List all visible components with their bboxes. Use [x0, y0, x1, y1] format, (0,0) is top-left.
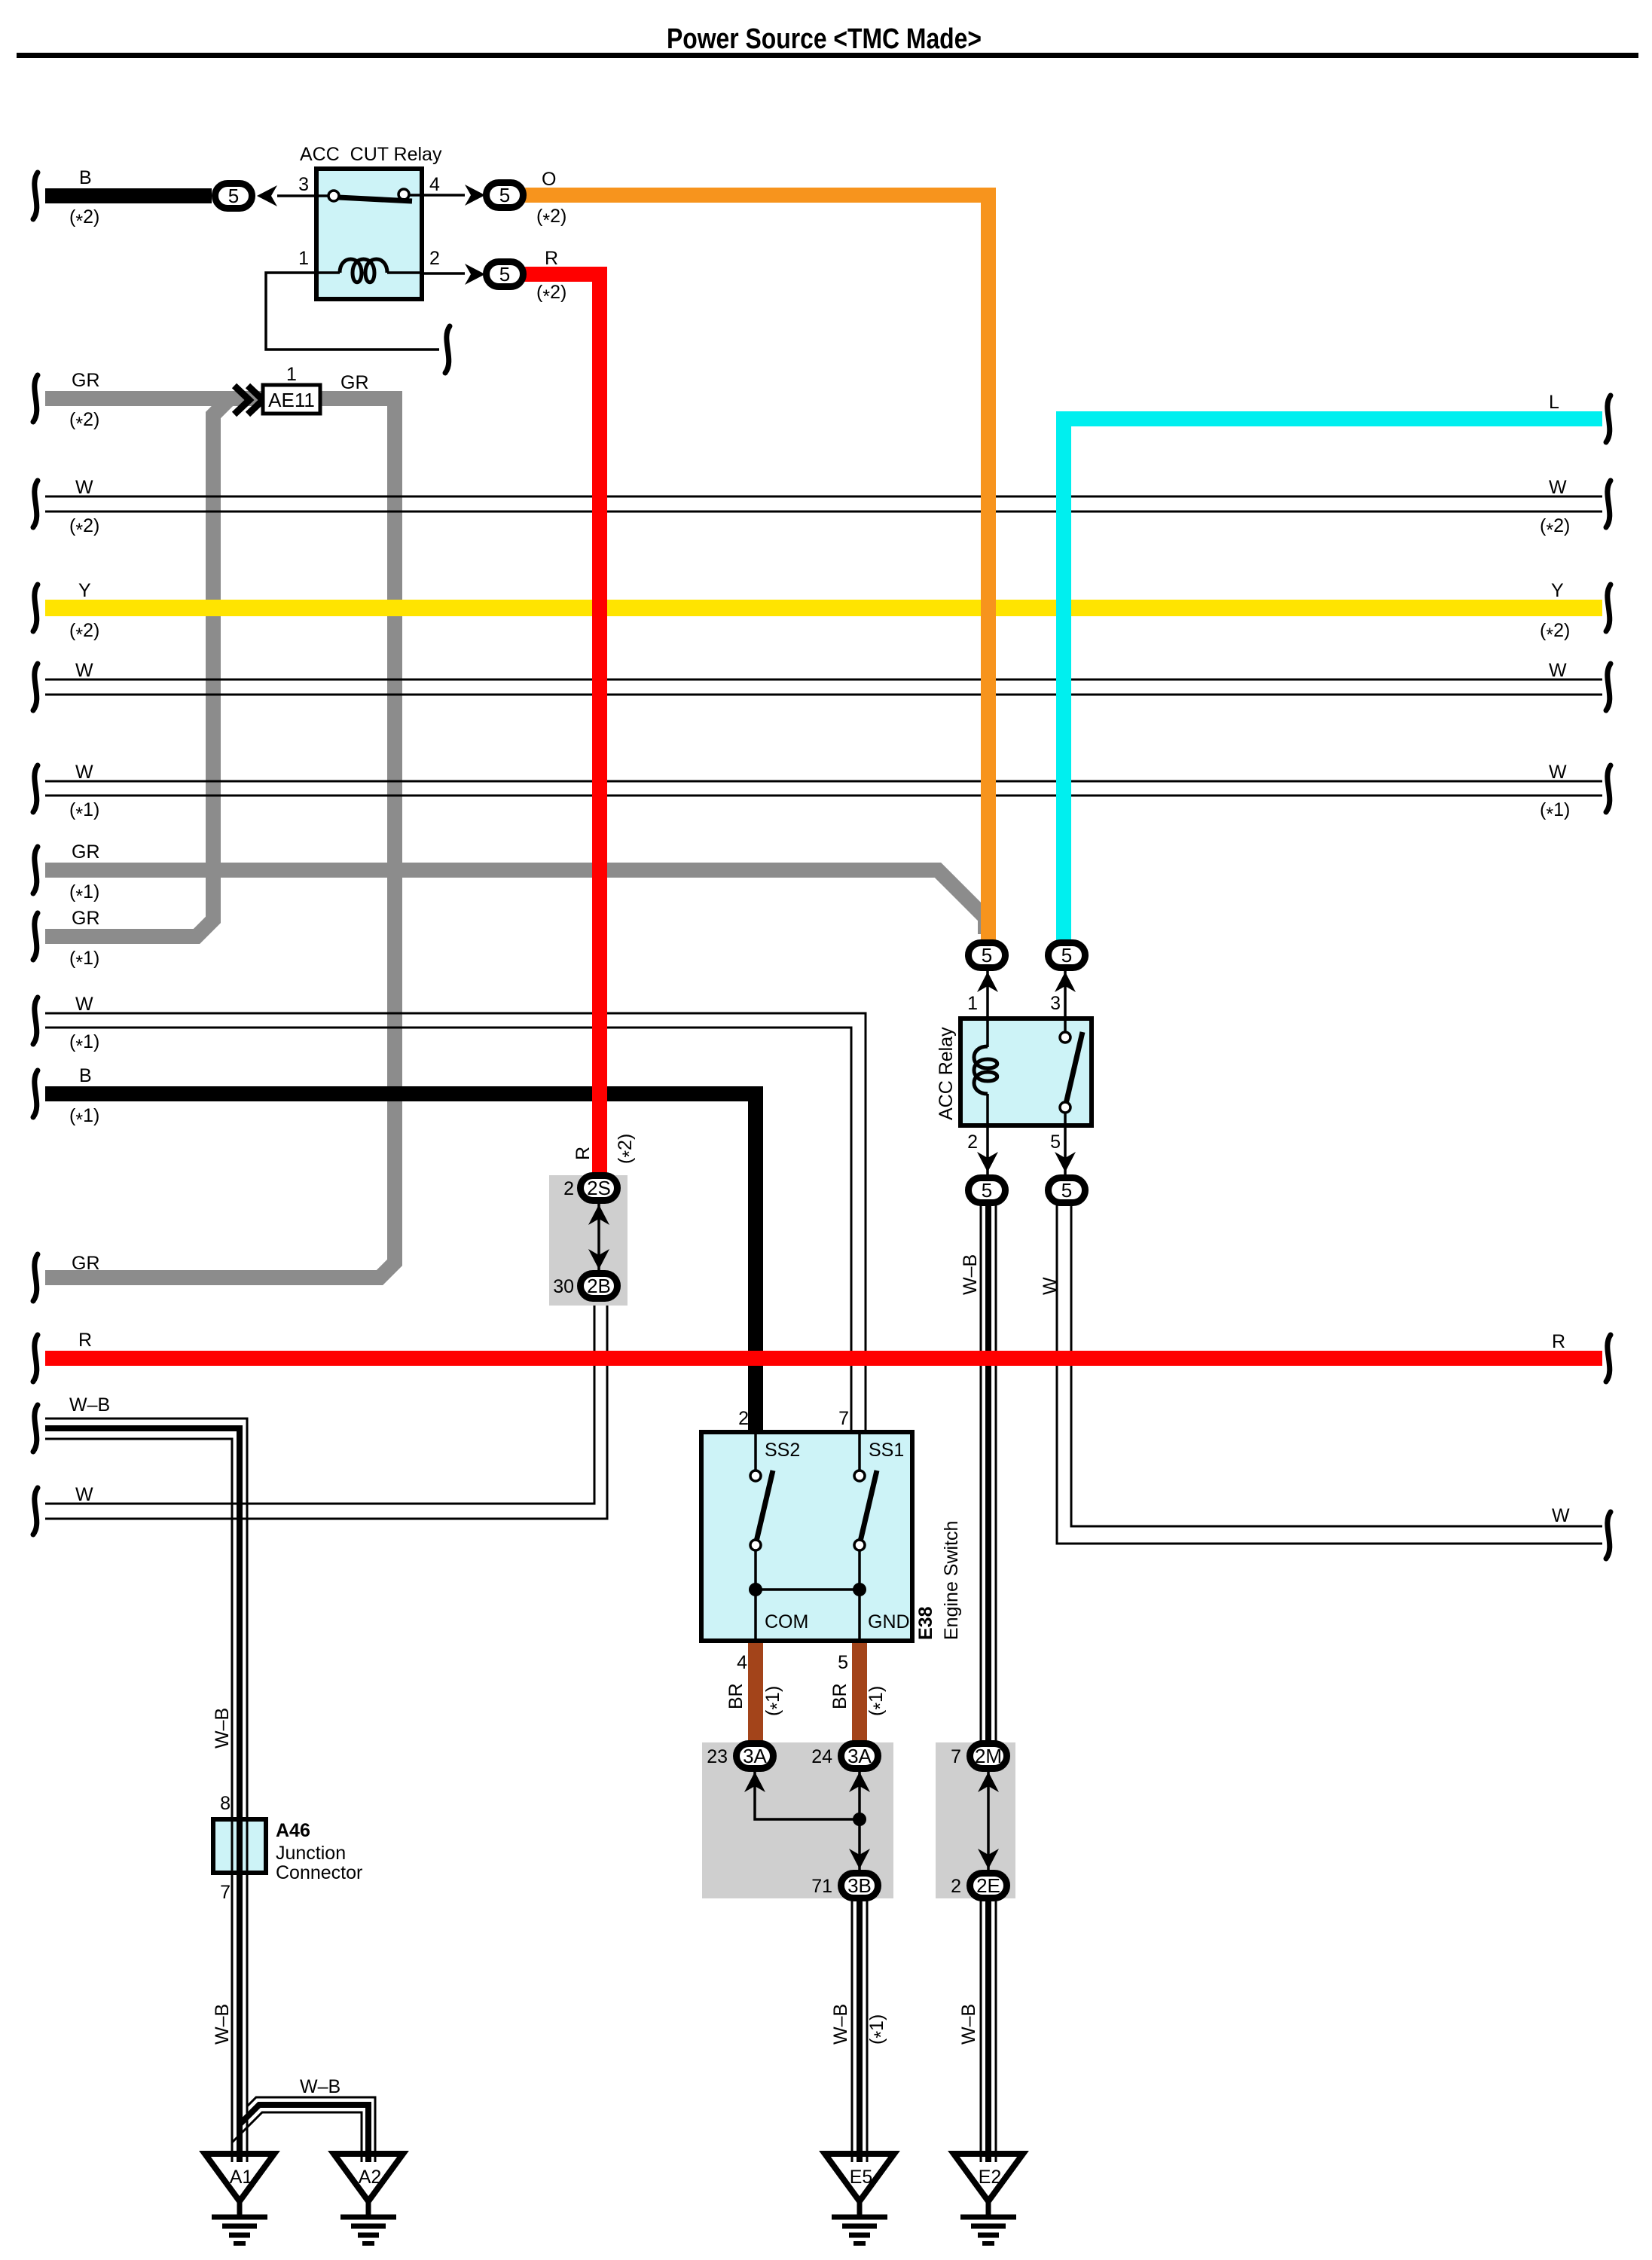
- svg-text:SS1: SS1: [869, 1440, 904, 1461]
- svg-text:L: L: [1549, 392, 1559, 413]
- svg-text:1: 1: [298, 248, 309, 269]
- svg-text:W–B: W–B: [69, 1394, 110, 1416]
- svg-text:3A: 3A: [847, 1745, 872, 1767]
- svg-text:GR: GR: [340, 372, 369, 393]
- svg-text:AE11: AE11: [268, 389, 315, 411]
- svg-text:(*2): (*2): [69, 515, 99, 541]
- svg-text:2E: 2E: [976, 1874, 1000, 1897]
- svg-text:3: 3: [298, 174, 309, 195]
- svg-text:4: 4: [737, 1652, 747, 1673]
- svg-text:(*1): (*1): [69, 881, 99, 907]
- svg-text:7: 7: [220, 1882, 231, 1903]
- svg-text:2: 2: [429, 248, 440, 269]
- svg-text:GR: GR: [72, 908, 100, 929]
- svg-text:W–B: W–B: [212, 1708, 233, 1748]
- svg-text:(*1): (*1): [866, 1686, 891, 1716]
- svg-text:71: 71: [811, 1876, 832, 1897]
- svg-text:2B: 2B: [587, 1275, 611, 1297]
- svg-text:1: 1: [286, 364, 297, 385]
- svg-text:30: 30: [553, 1276, 574, 1297]
- svg-text:R: R: [1552, 1331, 1565, 1352]
- svg-text:5: 5: [838, 1652, 848, 1673]
- svg-text:W–B: W–B: [958, 2004, 979, 2045]
- svg-text:5: 5: [1061, 1179, 1072, 1202]
- svg-text:W: W: [75, 994, 93, 1015]
- svg-text:Y: Y: [1551, 580, 1564, 601]
- svg-text:(*1): (*1): [69, 948, 99, 973]
- svg-text:5: 5: [499, 263, 510, 286]
- svg-text:(*2): (*2): [1540, 620, 1570, 646]
- svg-text:(*1): (*1): [762, 1686, 788, 1716]
- svg-text:2: 2: [967, 1132, 978, 1153]
- svg-text:(*2): (*2): [536, 282, 566, 307]
- svg-text:2M: 2M: [975, 1745, 1002, 1767]
- svg-text:GR: GR: [72, 1253, 100, 1274]
- svg-text:Power Source <TMC Made>: Power Source <TMC Made>: [667, 23, 982, 55]
- svg-text:2: 2: [951, 1876, 961, 1897]
- svg-text:4: 4: [429, 174, 440, 195]
- svg-text:E38: E38: [915, 1606, 936, 1640]
- svg-text:Junction: Junction: [276, 1843, 346, 1864]
- svg-text:BR: BR: [829, 1683, 850, 1709]
- svg-text:(*2): (*2): [69, 206, 99, 232]
- svg-text:W: W: [1549, 477, 1567, 498]
- svg-text:COM: COM: [765, 1611, 808, 1632]
- svg-text:5: 5: [982, 944, 992, 967]
- svg-text:(*2): (*2): [69, 620, 99, 646]
- svg-text:O: O: [542, 169, 556, 190]
- svg-text:W–B: W–B: [300, 2076, 340, 2097]
- svg-text:(*1): (*1): [69, 1031, 99, 1057]
- svg-text:1: 1: [967, 993, 978, 1014]
- svg-text:W: W: [1549, 762, 1567, 783]
- svg-text:W: W: [1040, 1277, 1061, 1295]
- svg-text:A46: A46: [276, 1820, 310, 1841]
- svg-text:B: B: [79, 167, 92, 188]
- svg-text:8: 8: [220, 1793, 231, 1814]
- svg-text:24: 24: [811, 1746, 832, 1767]
- svg-text:A2: A2: [359, 2167, 382, 2188]
- svg-text:R: R: [78, 1330, 92, 1351]
- svg-text:3A: 3A: [743, 1745, 767, 1767]
- svg-text:5: 5: [228, 185, 239, 207]
- svg-text:W–B: W–B: [830, 2004, 851, 2045]
- svg-text:E2: E2: [979, 2167, 1002, 2188]
- svg-text:3B: 3B: [847, 1874, 872, 1897]
- svg-text:5: 5: [499, 184, 510, 206]
- svg-text:(*2): (*2): [1540, 515, 1570, 541]
- svg-text:B: B: [79, 1065, 92, 1086]
- svg-text:BR: BR: [725, 1683, 747, 1709]
- svg-text:GR: GR: [72, 370, 100, 391]
- svg-text:2: 2: [738, 1408, 749, 1429]
- svg-text:(*1): (*1): [69, 799, 99, 825]
- svg-text:R: R: [573, 1147, 594, 1160]
- svg-text:W: W: [75, 660, 93, 681]
- svg-text:SS2: SS2: [765, 1440, 800, 1461]
- svg-text:W: W: [75, 477, 93, 498]
- svg-text:5: 5: [982, 1179, 992, 1202]
- svg-text:W: W: [75, 1484, 93, 1505]
- svg-text:23: 23: [707, 1746, 728, 1767]
- svg-text:Connector: Connector: [276, 1862, 362, 1883]
- svg-text:ACC Relay: ACC Relay: [936, 1027, 957, 1120]
- svg-text:(*2): (*2): [536, 206, 566, 231]
- svg-text:A1: A1: [230, 2167, 253, 2188]
- svg-text:7: 7: [951, 1746, 961, 1767]
- svg-text:W: W: [75, 762, 93, 783]
- svg-text:GND: GND: [868, 1611, 910, 1632]
- svg-text:(*2): (*2): [69, 409, 99, 435]
- svg-text:3: 3: [1050, 993, 1061, 1014]
- svg-text:GR: GR: [72, 841, 100, 863]
- svg-text:W: W: [1552, 1505, 1570, 1526]
- svg-text:2: 2: [563, 1178, 574, 1199]
- svg-text:R: R: [545, 248, 558, 269]
- svg-text:2S: 2S: [587, 1177, 611, 1199]
- svg-text:7: 7: [838, 1408, 849, 1429]
- svg-text:(*1): (*1): [69, 1105, 99, 1131]
- svg-text:Engine Switch: Engine Switch: [941, 1521, 962, 1640]
- svg-text:ACC CUT Relay: ACC CUT Relay: [300, 144, 442, 165]
- svg-text:(*1): (*1): [866, 2014, 892, 2045]
- svg-text:W–B: W–B: [212, 2004, 233, 2045]
- svg-text:W: W: [1549, 660, 1567, 681]
- svg-text:5: 5: [1061, 944, 1072, 967]
- svg-text:Y: Y: [78, 580, 91, 601]
- svg-text:W–B: W–B: [960, 1254, 981, 1295]
- svg-text:(*2): (*2): [615, 1134, 640, 1164]
- svg-text:(*1): (*1): [1540, 799, 1570, 825]
- svg-text:5: 5: [1050, 1132, 1061, 1153]
- svg-text:E5: E5: [850, 2167, 873, 2188]
